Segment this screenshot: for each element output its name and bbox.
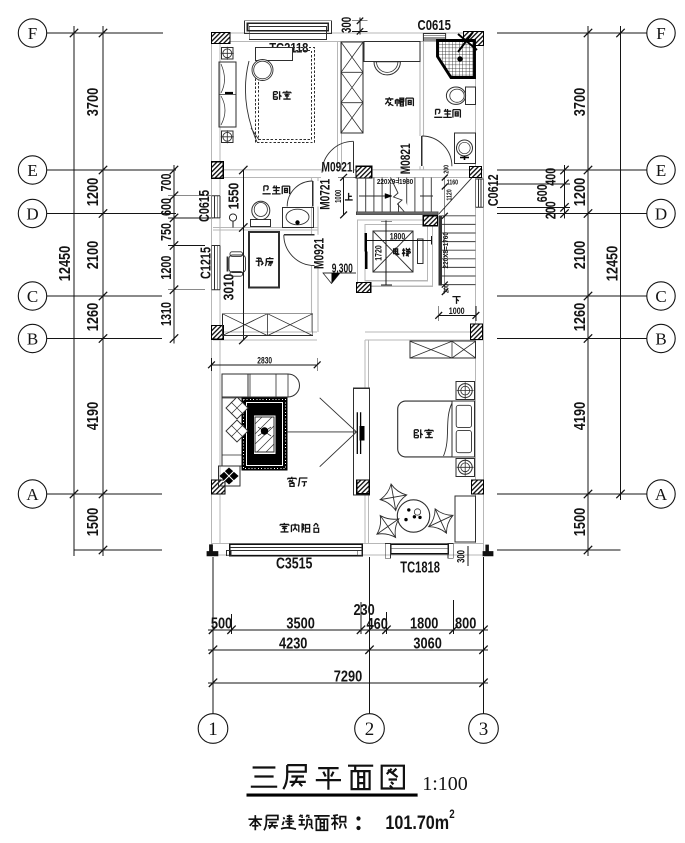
cloakroom tall closet with X — [341, 42, 363, 133]
svg-text:4190: 4190 — [85, 402, 103, 430]
elevator dim 1800 horizontal line — [367, 239, 432, 241]
bedroom2 closet with X — [410, 341, 476, 358]
svg-text:1310: 1310 — [157, 302, 174, 326]
grid line F right stub — [497, 32, 647, 34]
svg-text:200: 200 — [443, 284, 451, 293]
window TC1818 end caps — [385, 544, 390, 559]
bathroom2 door M0721 leaf — [312, 181, 314, 207]
elevator door jambs — [365, 233, 367, 251]
wall bottom inner line — [212, 543, 484, 545]
column 6 hatched — [423, 216, 437, 226]
svg-text:C: C — [27, 287, 38, 306]
svg-text:3: 3 — [479, 719, 489, 740]
bedroom1 door M0921 leaf — [353, 141, 355, 173]
shower pan bathroom1 — [438, 41, 475, 78]
bed bedroom1 quilt curve — [245, 61, 259, 142]
bay window TC2118 sill rect — [249, 27, 326, 40]
bay window TC2118 outer — [244, 21, 331, 34]
cloakroom door M0821 leaf — [421, 136, 423, 166]
svg-text:1120: 1120 — [446, 189, 454, 201]
sofa top band — [222, 374, 300, 397]
leader circle 1550 — [229, 214, 236, 221]
study closet dashed with X — [222, 314, 312, 336]
column 3 hatched — [211, 162, 223, 178]
stair width dim 1000 line — [343, 177, 345, 215]
left segment dim line — [102, 26, 104, 556]
right window sub-dim line — [564, 165, 566, 219]
window C1215 left wall glazing — [211, 246, 213, 290]
svg-text:E: E — [27, 161, 37, 180]
sofa pillows diamonds — [226, 397, 248, 442]
tv sight lines — [287, 398, 357, 467]
wall top inner line — [212, 40, 484, 42]
column 8 hatched — [211, 326, 223, 340]
svg-text:3700: 3700 — [85, 88, 103, 116]
tv set — [357, 412, 360, 454]
left bottom stub line at y550 — [74, 549, 162, 551]
wall right outer line — [483, 33, 485, 555]
column 4 hatched — [356, 166, 372, 178]
axis bubble F right — [647, 19, 675, 47]
rug dark — [242, 398, 287, 470]
round table — [397, 500, 429, 532]
axis bubble E left — [18, 156, 46, 184]
grid line C right stub — [497, 295, 647, 297]
chair pillow left — [377, 515, 399, 537]
svg-text:2100: 2100 — [85, 241, 103, 269]
stair up arrow — [359, 195, 387, 197]
column symbol circle-cross top — [222, 48, 234, 60]
right overall dim line 12450 — [620, 26, 622, 500]
svg-text:220X9=1980: 220X9=1980 — [377, 179, 413, 187]
tv feature wall — [353, 388, 369, 495]
stair landing diagonal — [439, 178, 472, 214]
window TC1818 glazing — [391, 544, 449, 554]
bottom dim row1 line — [208, 629, 488, 631]
dim 2830 line — [212, 364, 318, 366]
column 5 hatched — [470, 167, 482, 178]
bedside table bottom with cross circle — [456, 458, 474, 476]
bay depth dim 300 line — [359, 18, 361, 35]
svg-text:1200: 1200 — [572, 178, 590, 206]
stair slab edge dark — [357, 212, 439, 215]
chair pillow right — [429, 509, 453, 533]
svg-text:300: 300 — [455, 550, 468, 563]
svg-text:800: 800 — [455, 615, 476, 633]
svg-text:E: E — [656, 161, 666, 180]
wall bath2/study east lines — [311, 178, 313, 333]
bed bedroom1 round pillow — [252, 60, 273, 81]
stair break zigzag — [391, 178, 405, 213]
axis bubble 3 — [469, 714, 499, 744]
room label 室内阳台 — [280, 523, 289, 532]
stair break white mask — [388, 178, 410, 213]
svg-text:4230: 4230 — [279, 635, 307, 653]
wall cloakroom/bath1 divider lines — [419, 41, 421, 170]
column 11 hatched — [357, 480, 370, 494]
wall B lines left segment — [213, 331, 317, 333]
svg-text:D: D — [26, 205, 38, 224]
wall top outer line — [212, 32, 484, 34]
axis bubble C right — [647, 282, 675, 310]
study chair — [229, 255, 246, 273]
chair pillow upper — [380, 484, 406, 510]
title 三层平面图 — [251, 768, 277, 787]
wall E bottom line — [213, 177, 484, 179]
svg-text:1: 1 — [208, 719, 218, 740]
title underline — [247, 794, 418, 797]
bedside table top with cross circle — [456, 382, 474, 400]
axis bubble F left — [18, 19, 46, 47]
toilet bathroom2 — [252, 201, 270, 220]
svg-text:B: B — [655, 330, 666, 349]
bed bedroom2 pillows — [456, 405, 471, 427]
cloakroom basin semicircle — [374, 62, 400, 75]
stair lower flight treads — [442, 216, 476, 285]
svg-text:C0615: C0615 — [418, 17, 451, 34]
bathroom2 door M0721 arc — [287, 181, 313, 207]
room label 卧室 bedroom1 — [274, 91, 282, 99]
svg-text:460: 460 — [367, 616, 388, 634]
room label 客厅 — [288, 477, 297, 487]
svg-text:500: 500 — [211, 615, 232, 633]
study door M0921 leaf — [284, 234, 315, 236]
svg-text:3500: 3500 — [286, 615, 314, 633]
svg-text:101.70m: 101.70m — [385, 812, 449, 834]
bedroom1 door M0921 arc — [322, 141, 354, 173]
stair up label 上 — [345, 193, 353, 200]
bottom dim row2 line — [208, 649, 488, 651]
svg-text:3700: 3700 — [572, 88, 590, 116]
grid line D left stub — [47, 213, 176, 215]
grid line A left stub — [47, 493, 162, 495]
bed bedroom1 headboard — [256, 48, 293, 61]
svg-text:7290: 7290 — [334, 668, 362, 686]
axis bubble A left — [18, 480, 46, 508]
svg-text:200: 200 — [443, 164, 451, 173]
column 12 hatched — [472, 480, 484, 494]
svg-text:300: 300 — [340, 16, 355, 33]
left overall dim line 12450 — [73, 26, 75, 556]
svg-text:2: 2 — [365, 719, 375, 740]
svg-text:M0821: M0821 — [398, 143, 414, 174]
grid line E left stub — [47, 169, 176, 171]
axis bubble C left — [18, 282, 46, 310]
balcony corner mark left — [207, 545, 218, 556]
svg-text:600: 600 — [533, 184, 550, 202]
svg-text:1160: 1160 — [447, 179, 459, 187]
wall E top line — [213, 169, 484, 171]
area note colon — [356, 816, 360, 820]
wall bathroom2 south lines — [213, 227, 318, 229]
svg-text:4190: 4190 — [572, 402, 590, 430]
svg-text:A: A — [26, 485, 39, 504]
grid line E right stub — [497, 169, 647, 171]
room label 衣帽间 — [385, 97, 393, 106]
svg-text:3010: 3010 — [220, 274, 237, 301]
cloakroom vanity counter — [364, 41, 420, 61]
svg-text:400: 400 — [542, 168, 559, 186]
svg-text:220X8=1760: 220X8=1760 — [442, 232, 450, 268]
bottom dim row3 line — [208, 682, 488, 684]
column 2 hatched — [464, 32, 484, 46]
right segment dim line — [587, 26, 589, 556]
study door M0921 arc — [284, 235, 315, 266]
svg-text:2100: 2100 — [572, 241, 590, 269]
svg-text:B: B — [27, 330, 38, 349]
svg-text:C0612: C0612 — [484, 174, 501, 206]
wall right inner line — [475, 41, 477, 543]
grid line C left stub — [47, 295, 162, 297]
bottom extension line grid 2 — [369, 557, 371, 714]
room label 卧室 bedroom2 — [414, 429, 422, 438]
stair dim line right of upper flight — [444, 178, 446, 294]
shower corner X mark — [458, 32, 477, 52]
elevator shaft inner rect — [365, 225, 428, 281]
left window sub-dim line — [173, 165, 175, 344]
svg-text:2830: 2830 — [257, 355, 272, 365]
svg-text:1200: 1200 — [157, 256, 174, 280]
column 7 hatched — [357, 283, 371, 293]
washbasin bathroom2 — [283, 208, 314, 228]
axis bubble B right — [647, 324, 675, 352]
plant stand below sofa — [219, 466, 241, 486]
svg-text:2: 2 — [449, 808, 454, 821]
coffee table on rug — [254, 416, 275, 454]
svg-text:600: 600 — [157, 198, 174, 216]
svg-text:1200: 1200 — [85, 178, 103, 206]
study desk — [249, 232, 279, 288]
svg-text:1260: 1260 — [572, 303, 590, 331]
sofa left band — [222, 374, 248, 466]
svg-text:1000: 1000 — [333, 190, 343, 203]
elevator shaft outer rect — [358, 220, 433, 286]
grid line D right stub — [497, 213, 647, 215]
bottom extension stubs — [231, 614, 233, 634]
toilet bathroom1 — [466, 87, 476, 105]
bottom extension line grid 1 — [212, 557, 214, 714]
grid line A right stub — [497, 493, 647, 495]
svg-text:3060: 3060 — [413, 635, 441, 653]
wardrobe bedroom1 — [219, 62, 236, 127]
elevator dim 1720 vertical line — [385, 221, 387, 286]
axis bubble 2 — [355, 714, 385, 744]
column 10 hatched — [212, 480, 226, 494]
label 电梯 — [394, 248, 400, 255]
area note 本层建筑面积 — [248, 815, 262, 830]
elevator counterweight — [418, 239, 424, 263]
axis bubble 1 — [198, 714, 228, 744]
svg-text:M0921: M0921 — [311, 238, 327, 269]
wall B lines right segment — [365, 331, 484, 333]
wall bottom outer line — [212, 554, 484, 556]
svg-text:C3515: C3515 — [276, 554, 313, 572]
stair lower flight left wall bar — [439, 216, 442, 285]
svg-text:TC1818: TC1818 — [400, 559, 440, 576]
column symbol circle-cross bottom — [222, 131, 234, 143]
balcony corner mark right — [483, 545, 493, 556]
bed bedroom2 — [398, 401, 452, 457]
bed bedroom2 quilt — [444, 403, 453, 456]
right bottom stub line at y550 — [497, 549, 621, 551]
elevator car box — [373, 231, 413, 272]
svg-text:1800: 1800 — [410, 615, 438, 633]
axis bubble D left — [18, 199, 46, 227]
svg-text:1550: 1550 — [225, 183, 242, 210]
svg-text:12450: 12450 — [57, 246, 75, 282]
window C3515 glazing — [230, 544, 362, 556]
wall left outer line — [211, 33, 213, 555]
grid line B right stub — [497, 338, 647, 340]
dim 1550 study/bath line — [242, 170, 244, 340]
column 9 hatched — [470, 324, 482, 339]
column at tv wall bottom re-drawn — [357, 480, 370, 494]
room label 书房 — [256, 257, 264, 265]
stair down label 下 — [452, 297, 460, 304]
cloakroom door M0821 arc — [422, 136, 452, 166]
svg-text:F: F — [656, 24, 665, 43]
wall left inner line — [219, 41, 221, 543]
window C3515 end caps — [227, 551, 231, 556]
wall cloakroom west lines — [337, 41, 339, 170]
stair upper flight treads — [357, 178, 431, 213]
svg-text:1800: 1800 — [390, 232, 406, 242]
wall grid2 bedroom lines — [364, 340, 366, 544]
axis bubble A right — [647, 480, 675, 508]
svg-text:700: 700 — [157, 174, 174, 192]
bottom extension line grid 3 — [483, 557, 485, 714]
bay window TC2118 thick frame — [248, 23, 329, 31]
elevator X diagonals — [373, 231, 413, 272]
bed bedroom1 dashed outline — [256, 48, 315, 143]
svg-text:1500: 1500 — [572, 508, 590, 536]
svg-text:1000: 1000 — [449, 305, 465, 316]
svg-text:750: 750 — [157, 223, 174, 241]
bed bedroom2 headboard — [452, 401, 474, 457]
room label 卫生间 bathroom2 — [263, 186, 271, 194]
svg-text:D: D — [655, 205, 667, 224]
svg-text:200: 200 — [542, 201, 559, 219]
window C0615 left wall glazing — [211, 196, 213, 218]
svg-text:M0921: M0921 — [322, 159, 353, 175]
window C0612 right wall glazing — [475, 179, 477, 207]
axis bubble B left — [18, 324, 46, 352]
axis bubble E right — [647, 156, 675, 184]
axis bubble D right — [647, 199, 675, 227]
svg-text:1260: 1260 — [85, 303, 103, 331]
svg-text:1500: 1500 — [85, 508, 103, 536]
grid line B left stub — [47, 338, 162, 340]
svg-text:1:100: 1:100 — [422, 773, 468, 795]
grid line F left stub — [47, 32, 163, 34]
svg-text:1720: 1720 — [374, 245, 384, 261]
svg-text:C: C — [655, 287, 666, 306]
bench bedroom2 — [455, 496, 476, 542]
washbasin bathroom1 — [455, 133, 476, 163]
column 1 hatched — [212, 33, 231, 44]
window C0615 top glazing — [423, 33, 445, 35]
svg-text:F: F — [28, 24, 37, 43]
svg-text:C0615: C0615 — [195, 190, 212, 222]
svg-text:M0721: M0721 — [317, 179, 333, 210]
svg-text:12450: 12450 — [604, 246, 622, 282]
svg-text:A: A — [655, 485, 668, 504]
room label 卫生间 bathroom1 — [434, 109, 442, 117]
